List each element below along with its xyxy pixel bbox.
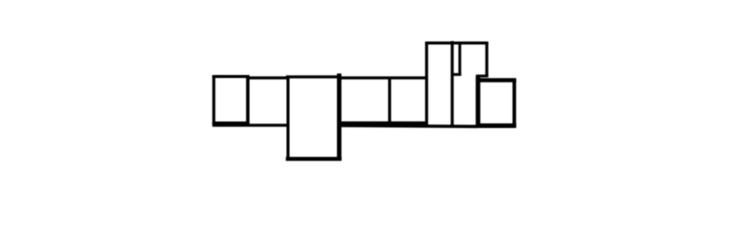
notch bottom edge — [451, 73, 461, 76]
tall box top edge — [425, 42, 488, 45]
wire strip top edge cell3 — [286, 75, 341, 78]
notch left edge — [451, 41, 454, 125]
wire strip bottom edge left — [213, 124, 290, 127]
cell 1 left edge — [212, 76, 215, 127]
hanging cell left edge — [287, 77, 290, 161]
notch right edge — [458, 42, 461, 76]
hanging cell right edge — [337, 74, 342, 161]
tall box right edge — [485, 42, 488, 77]
cell 4/5 divider — [388, 77, 391, 123]
cell 1 bottom edge — [212, 122, 249, 125]
thick square left edge — [476, 76, 481, 128]
hanging cell bottom edge — [286, 157, 342, 161]
wire strip top edge right — [339, 76, 429, 79]
wire strip bottom edge right — [338, 126, 478, 127]
thick square top edge — [476, 78, 516, 82]
cell 4-5 bottom edge — [338, 121, 428, 124]
thick square bottom edge — [476, 123, 516, 128]
wire strip top edge cell1 — [212, 75, 249, 78]
wire strip top edge cell2 — [247, 76, 288, 79]
tall box left edge — [425, 42, 428, 127]
thick square right edge — [512, 79, 516, 128]
tall box bottom jog — [476, 75, 488, 78]
cell 1/2 divider — [246, 76, 249, 127]
